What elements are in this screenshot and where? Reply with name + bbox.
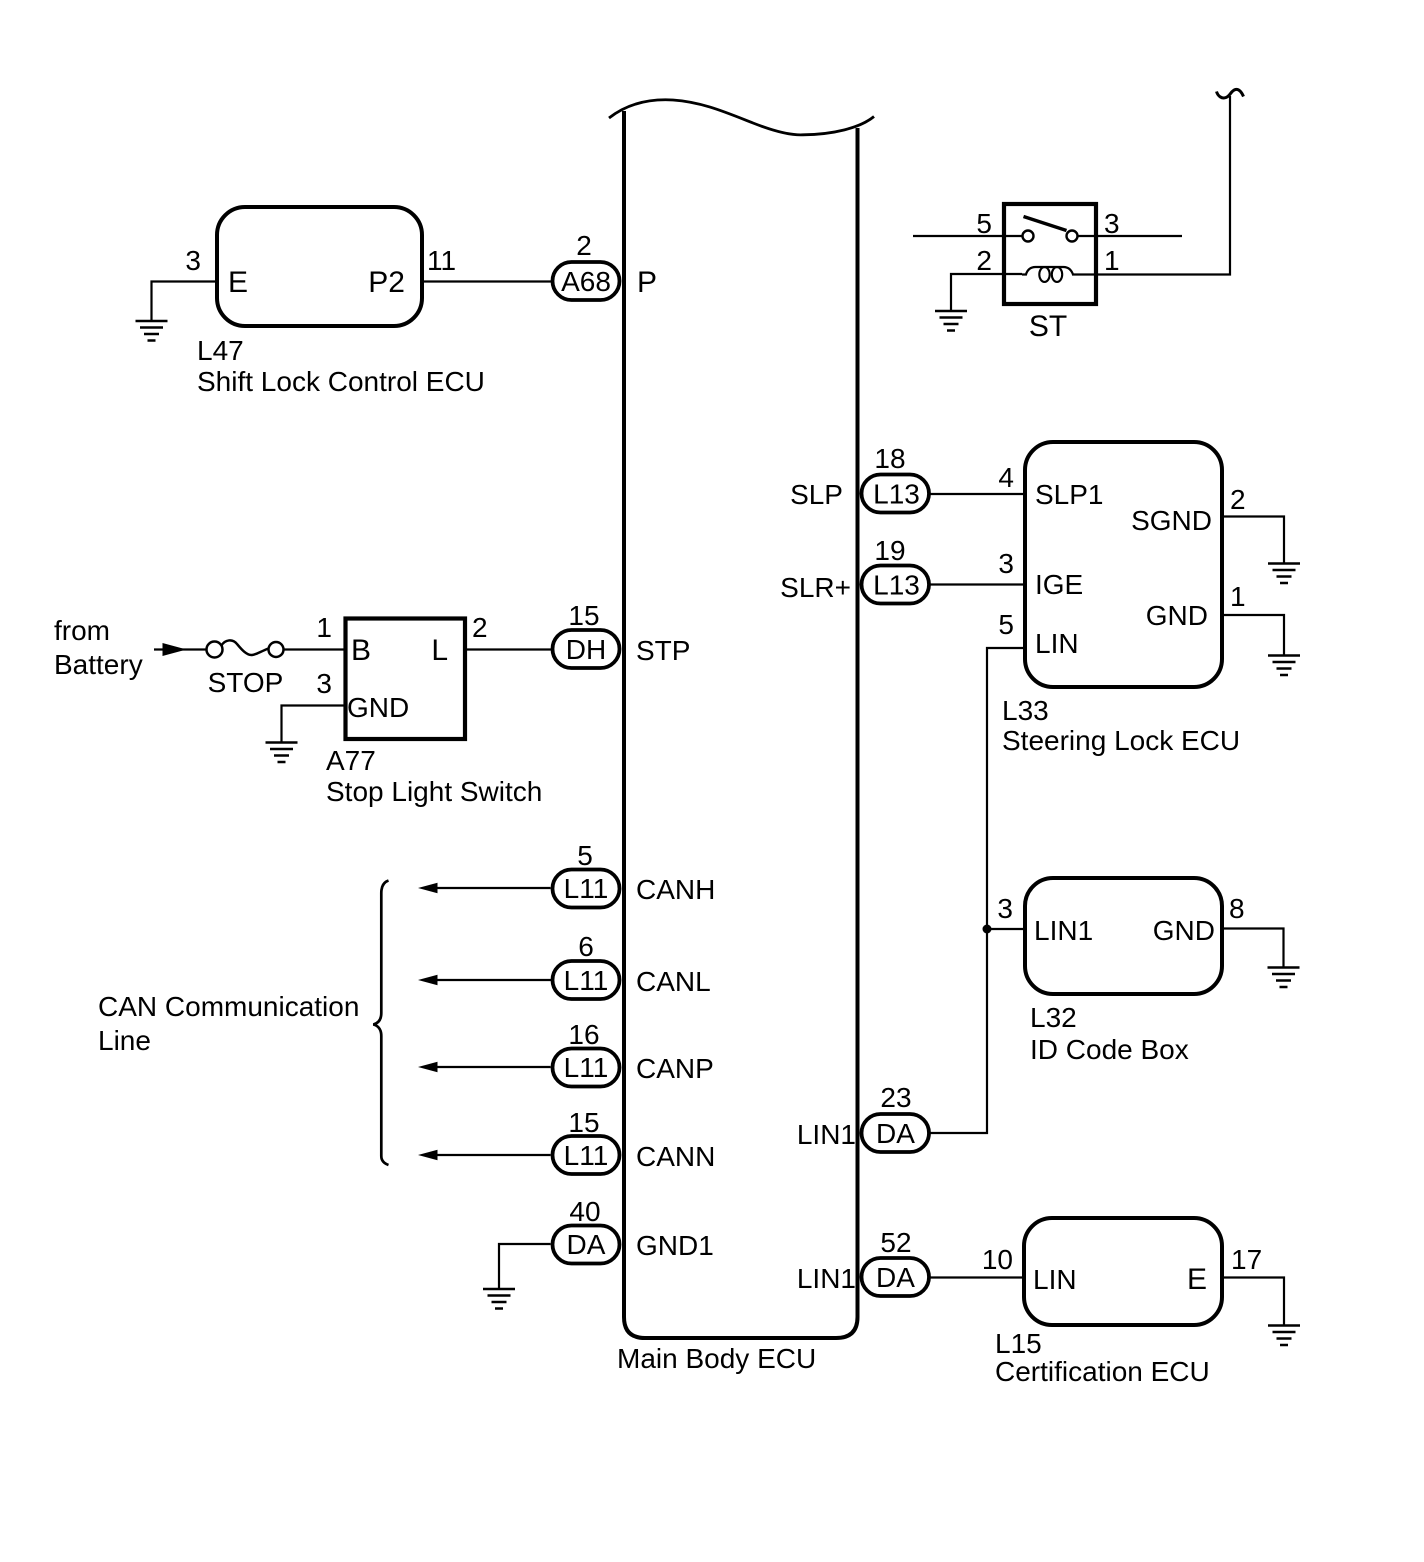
svg-text:LIN1: LIN1 <box>797 1263 856 1294</box>
svg-text:L32: L32 <box>1030 1002 1077 1033</box>
svg-text:CANN: CANN <box>636 1141 715 1172</box>
ground (L32 GND) <box>1268 968 1300 988</box>
svg-text:LIN: LIN <box>1033 1264 1077 1295</box>
svg-text:8: 8 <box>1229 893 1245 924</box>
svg-text:1: 1 <box>316 612 332 643</box>
svg-text:2: 2 <box>472 612 488 643</box>
svg-text:4: 4 <box>998 462 1014 493</box>
relay ST box <box>1004 204 1096 304</box>
svg-text:DA: DA <box>567 1229 606 1260</box>
svg-text:10: 10 <box>982 1244 1013 1275</box>
svg-text:3: 3 <box>185 245 201 276</box>
wire L47 pin E to ground <box>152 282 218 322</box>
svg-text:L: L <box>431 634 448 667</box>
svg-text:3: 3 <box>316 668 332 699</box>
svg-text:Main Body ECU: Main Body ECU <box>617 1343 816 1374</box>
svg-text:E: E <box>1187 1263 1207 1296</box>
wire L13 to L33 SLP1 <box>930 493 1025 495</box>
ground (SGND) <box>1268 564 1300 584</box>
arrow CANN <box>418 1150 551 1160</box>
wire L33 SGND to ground <box>1222 517 1284 564</box>
connector L13 (SLR+) <box>862 566 930 604</box>
svg-text:LIN1: LIN1 <box>1034 915 1093 946</box>
ground (L15 E) <box>1268 1326 1300 1346</box>
arrow from battery <box>154 643 207 656</box>
wire stub left of ST switch <box>913 235 1022 237</box>
ground (L33 GND) <box>1268 656 1300 676</box>
svg-text:IGE: IGE <box>1035 569 1083 600</box>
svg-text:3: 3 <box>997 893 1013 924</box>
svg-text:P2: P2 <box>368 266 405 299</box>
brace (CAN group) <box>373 881 388 1166</box>
svg-text:16: 16 <box>568 1019 599 1050</box>
svg-text:Shift Lock Control ECU: Shift Lock Control ECU <box>197 366 485 397</box>
relay coil (ST) <box>1022 267 1073 282</box>
arrow CANH <box>418 883 551 893</box>
svg-text:CANP: CANP <box>636 1053 714 1084</box>
svg-text:40: 40 <box>569 1196 600 1227</box>
svg-text:23: 23 <box>880 1082 911 1113</box>
wire L33 GND to ground <box>1222 615 1284 655</box>
connector L11 (CANP) <box>553 1049 620 1087</box>
wire DA GND1 to ground <box>499 1244 551 1289</box>
connector DA (LIN1 to certification ECU) <box>862 1258 930 1296</box>
svg-text:L11: L11 <box>564 965 609 996</box>
ground (A77 GND) <box>266 743 298 763</box>
svg-text:GND: GND <box>1153 915 1215 946</box>
svg-text:ID Code Box: ID Code Box <box>1030 1034 1189 1065</box>
svg-text:GND: GND <box>1146 600 1208 631</box>
switch blade (ST) <box>1024 217 1067 231</box>
svg-text:CANH: CANH <box>636 874 715 905</box>
svg-text:STOP: STOP <box>208 667 284 698</box>
wire fuse to A77 pin B <box>284 648 346 650</box>
svg-text:1: 1 <box>1104 245 1120 276</box>
svg-text:Line: Line <box>98 1025 151 1056</box>
junction dot (LIN net) <box>983 925 992 934</box>
connector DA (GND1) <box>553 1226 620 1264</box>
svg-text:Steering Lock ECU: Steering Lock ECU <box>1002 725 1240 756</box>
svg-text:DA: DA <box>876 1262 915 1293</box>
svg-text:L13: L13 <box>873 479 920 510</box>
wire L15 E to ground <box>1222 1278 1284 1326</box>
svg-text:Stop Light Switch: Stop Light Switch <box>326 776 542 807</box>
svg-text:SLR+: SLR+ <box>780 572 851 603</box>
svg-text:L15: L15 <box>995 1328 1042 1359</box>
svg-text:Battery: Battery <box>54 649 143 680</box>
svg-text:ST: ST <box>1029 310 1067 343</box>
svg-text:15: 15 <box>568 600 599 631</box>
wire stub right of ST switch <box>1078 235 1182 237</box>
ECU L47 box (Shift Lock Control ECU) <box>217 207 422 326</box>
connector A68 <box>553 262 620 300</box>
connector L11 (CANL) <box>553 961 620 999</box>
svg-text:DA: DA <box>876 1118 915 1149</box>
arrow CANL <box>418 975 552 985</box>
svg-text:Certification ECU: Certification ECU <box>995 1356 1210 1387</box>
svg-text:L13: L13 <box>873 570 920 601</box>
svg-text:DH: DH <box>566 634 606 665</box>
wire LIN net: L33 LIN down to DA connector <box>930 648 1025 1133</box>
svg-text:L11: L11 <box>564 1140 609 1171</box>
svg-text:B: B <box>351 634 371 667</box>
text from Battery <box>54 615 143 680</box>
svg-text:LIN: LIN <box>1035 628 1079 659</box>
connector L13 (SLP) <box>862 475 930 513</box>
wire A77 GND to ground <box>282 706 346 743</box>
svg-text:SLP: SLP <box>790 479 843 510</box>
svg-text:17: 17 <box>1231 1244 1262 1275</box>
svg-text:E: E <box>228 266 248 299</box>
svg-text:2: 2 <box>976 245 992 276</box>
wire ST pin 2 to ground <box>951 274 1022 311</box>
wire L47 P2 to connector A68 <box>422 280 551 282</box>
svg-text:1: 1 <box>1230 581 1246 612</box>
wire junction to L32 LIN1 <box>987 928 1025 930</box>
break squiggle (top of ST wire) <box>1217 89 1244 98</box>
svg-text:52: 52 <box>880 1227 911 1258</box>
svg-text:GND1: GND1 <box>636 1230 714 1261</box>
ECU L32 box (ID Code Box) <box>1025 878 1222 994</box>
wire DA to L15 LIN <box>930 1276 1024 1278</box>
wire A77 L to connector DH <box>465 648 551 650</box>
svg-text:L11: L11 <box>564 873 609 904</box>
ground (GND1) <box>483 1289 515 1309</box>
svg-text:5: 5 <box>976 208 992 239</box>
svg-text:L33: L33 <box>1002 695 1049 726</box>
svg-text:L47: L47 <box>197 335 244 366</box>
fuse STOP <box>207 640 284 657</box>
svg-text:2: 2 <box>1230 484 1246 515</box>
svg-text:CANL: CANL <box>636 966 711 997</box>
Main Body ECU box outline with break-wave top <box>609 100 874 1338</box>
switch contact circle (ST pin 5 side) <box>1023 231 1034 242</box>
svg-text:SGND: SGND <box>1131 505 1212 536</box>
ECU L33 box (Steering Lock ECU) <box>1025 442 1222 687</box>
switch A77 box (Stop Light Switch) <box>346 619 466 740</box>
svg-text:15: 15 <box>568 1107 599 1138</box>
svg-text:19: 19 <box>874 535 905 566</box>
connector L11 (CANN) <box>553 1136 620 1174</box>
svg-text:3: 3 <box>998 548 1014 579</box>
svg-text:5: 5 <box>998 609 1014 640</box>
connector DA (LIN1 to ID code box) <box>862 1114 930 1152</box>
svg-text:STP: STP <box>636 635 690 666</box>
svg-text:LIN1: LIN1 <box>797 1119 856 1150</box>
ground (ST pin 2) <box>935 311 967 331</box>
svg-text:A68: A68 <box>561 266 611 297</box>
connector DH <box>553 630 620 668</box>
svg-text:18: 18 <box>874 443 905 474</box>
svg-text:CAN Communication: CAN Communication <box>98 991 359 1022</box>
svg-text:from: from <box>54 615 110 646</box>
svg-text:L11: L11 <box>564 1052 609 1083</box>
svg-text:A77: A77 <box>326 745 376 776</box>
svg-text:2: 2 <box>576 230 592 261</box>
svg-text:11: 11 <box>427 245 456 276</box>
connector L11 (CANH) <box>553 870 620 908</box>
ECU L15 box (Certification ECU) <box>1024 1218 1222 1325</box>
svg-text:3: 3 <box>1104 208 1120 239</box>
svg-text:5: 5 <box>577 840 593 871</box>
svg-text:6: 6 <box>578 931 594 962</box>
switch contact circle (ST pin 3 side) <box>1067 231 1078 242</box>
wire ST pin 1 up with break <box>1072 96 1230 275</box>
wire L13 to L33 IGE <box>930 583 1025 585</box>
svg-text:SLP1: SLP1 <box>1035 479 1104 510</box>
svg-text:P: P <box>637 266 657 299</box>
wire L32 GND to ground <box>1222 929 1284 968</box>
svg-text:GND: GND <box>347 692 409 723</box>
arrow CANP <box>418 1062 551 1072</box>
ground (L47 E) <box>136 321 168 341</box>
